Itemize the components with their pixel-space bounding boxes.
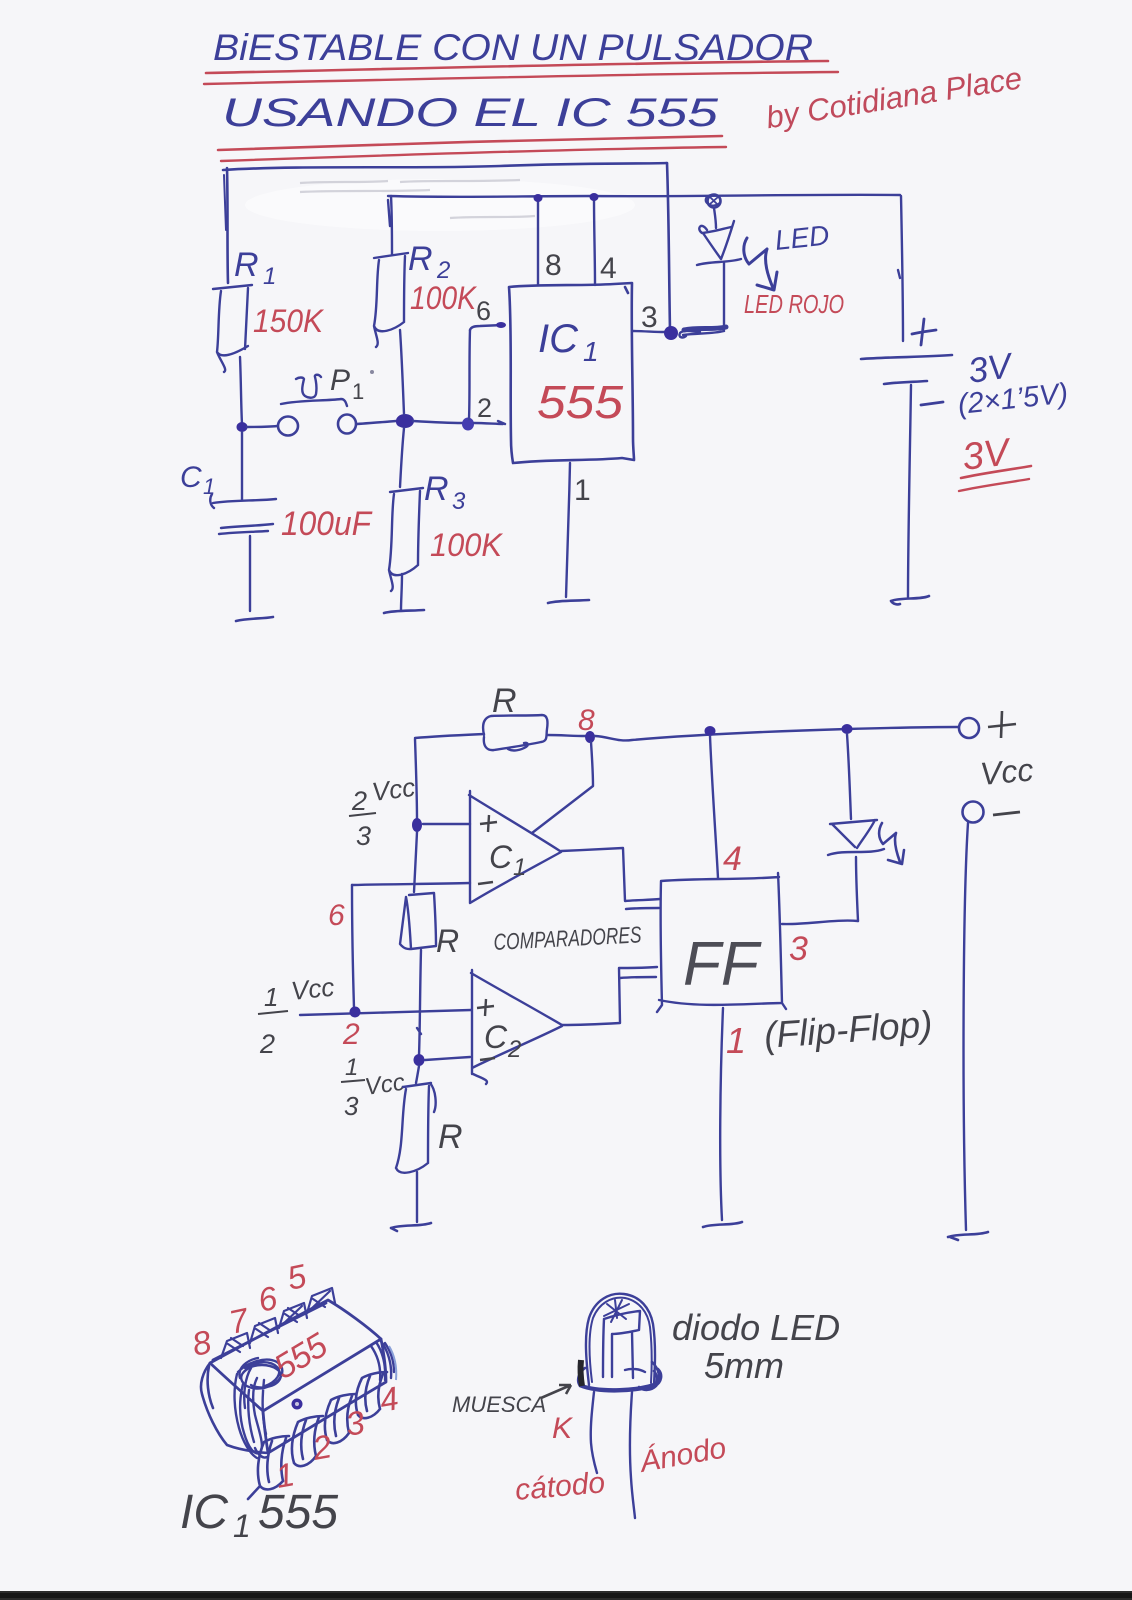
plus sign (C1)	[480, 815, 497, 832]
svg-text:LED: LED	[773, 219, 830, 256]
svg-text:R: R	[408, 240, 433, 278]
svg-text:R: R	[234, 246, 259, 284]
FF box	[657, 873, 786, 1012]
DIP pin 4 (bent tab)	[356, 1372, 387, 1418]
wire: 2/3 node to C1 plus input	[423, 823, 470, 825]
svg-text:C: C	[484, 1019, 508, 1055]
resistor R (middle, small box)	[400, 893, 436, 949]
wire: minus terminal down	[964, 823, 968, 1230]
LED arrow doodle (middle)	[879, 823, 900, 862]
svg-text:4: 4	[600, 252, 617, 285]
wire: 1/3 node to C2 minus	[425, 1057, 470, 1060]
DIP pin 7 (notch)	[250, 1318, 278, 1343]
wire: bottom R to ground	[416, 1172, 418, 1222]
scanner bottom bar	[0, 1591, 1132, 1600]
svg-text:IC: IC	[538, 317, 579, 361]
node 2/3 Vcc dot	[412, 818, 422, 832]
ground (right)	[948, 1232, 988, 1240]
wire: LED stem	[714, 208, 716, 228]
svg-text:Vcc: Vcc	[370, 772, 417, 807]
svg-text:R: R	[436, 923, 459, 959]
svg-text:3: 3	[356, 821, 371, 851]
svg-text:100uF: 100uF	[281, 505, 373, 543]
svg-text:3: 3	[641, 301, 658, 334]
comparator C2 (op-amp triangle)	[471, 970, 562, 1084]
node 1/3 Vcc dot	[414, 1054, 425, 1066]
terminal + (Vcc)	[959, 718, 979, 738]
svg-text:C: C	[489, 839, 513, 875]
node 8 dot	[585, 731, 595, 743]
node (pin2) dot	[350, 1007, 361, 1018]
svg-text:P: P	[330, 364, 350, 397]
wire: heavy scribble node D to LED lead	[684, 327, 726, 330]
wire: pin 6 horizontal into IC	[470, 325, 503, 330]
svg-text:1: 1	[513, 854, 526, 881]
DIP pin 6 (notch)	[279, 1303, 307, 1328]
svg-text:USANDO EL IC 555: USANDO EL IC 555	[222, 91, 719, 135]
DIP pin 5 (notch)	[307, 1288, 335, 1313]
svg-text:100K: 100K	[410, 280, 477, 316]
DIP left end face	[201, 1363, 268, 1453]
ground (R3)	[384, 610, 424, 613]
wire: rail B (R2 top to battery)	[388, 195, 900, 197]
wire: R1 top lead	[227, 168, 228, 283]
resistor R1 body	[213, 285, 252, 372]
svg-text:LED ROJO: LED ROJO	[744, 289, 844, 319]
svg-text:3: 3	[789, 930, 808, 968]
eraser white patch	[245, 179, 635, 231]
wire: R to node 8	[547, 735, 585, 736]
svg-text:1: 1	[726, 1020, 746, 1061]
DIP pin 2 (bent tab)	[292, 1416, 323, 1466]
title underline 1 (red double)	[206, 61, 828, 73]
node A (R1/C1/P1 junction dot)	[237, 422, 248, 432]
capacitor C1 plates	[210, 494, 276, 508]
LED D1 (red led) symbol	[699, 221, 734, 259]
DIP pin 1 (bent tab)	[248, 1436, 289, 1499]
minus sign (C1)	[478, 882, 493, 884]
svg-text:6: 6	[328, 899, 345, 932]
wire: pin 8	[537, 199, 539, 285]
terminal - (gnd)	[963, 802, 984, 823]
svg-text:6: 6	[476, 296, 491, 326]
wire: node B to node C	[413, 421, 462, 423]
label 555 on DIP (red)	[268, 1326, 335, 1387]
title underline 2 (red double)	[218, 136, 722, 150]
wire: 1/3 node down to bottom R	[416, 1066, 419, 1083]
pushbutton P1 actuator	[296, 375, 321, 398]
DIP pin1 heavy scribble	[235, 1358, 283, 1458]
svg-text:R: R	[438, 1118, 463, 1156]
svg-text:Vcc: Vcc	[363, 1069, 406, 1101]
svg-text:K: K	[552, 1412, 574, 1445]
LED inner chip structure	[603, 1311, 645, 1378]
LED (middle diagram) symbol	[830, 820, 877, 848]
plus sign (C2)	[477, 999, 494, 1016]
LED dome hatch	[604, 1300, 629, 1322]
wire: node A to P1 left contact	[247, 426, 277, 427]
ground (FF)	[703, 1222, 742, 1227]
DIP pin 3 (bent tab)	[325, 1394, 356, 1443]
wire: FF output 3 to LED branch	[782, 921, 858, 925]
DIP pin 8 (notch)	[221, 1333, 250, 1358]
wire: 2/3 node down to mid R	[414, 832, 417, 892]
svg-text:1: 1	[574, 474, 591, 507]
svg-text:555: 555	[258, 1486, 338, 1539]
svg-text:C: C	[180, 461, 202, 494]
wire: 6 branch vertical	[352, 885, 354, 1008]
svg-text:Vcc: Vcc	[978, 751, 1034, 792]
IC1 555 box	[509, 283, 634, 463]
wire: FF pin4 up to rail	[710, 736, 718, 878]
svg-text:Vcc: Vcc	[289, 972, 335, 1006]
node B (R2/R3/P1 big blob)	[396, 414, 414, 428]
battery B1	[912, 319, 936, 345]
DIP pin1 dot	[292, 1399, 303, 1410]
svg-text:3: 3	[452, 488, 466, 515]
DIP front face	[263, 1339, 386, 1453]
junction dot (FF pin4 rail)	[705, 726, 716, 736]
wire: P1 right to node B	[357, 421, 396, 424]
minus sign (C2)	[480, 1058, 495, 1060]
node D (pin3 blob)	[664, 326, 678, 340]
wire: battery minus to ground	[908, 385, 911, 597]
svg-text:150K: 150K	[253, 303, 325, 339]
svg-text:2: 2	[342, 1018, 360, 1051]
svg-text:2: 2	[351, 786, 367, 816]
svg-text:8: 8	[578, 704, 595, 737]
wire: 6 branch horizontal into C1 minus	[352, 883, 470, 885]
comparator C1 (op-amp triangle)	[469, 791, 561, 903]
wire: battery drop	[898, 196, 903, 341]
resistor R2 body	[374, 253, 408, 347]
wire: pin 1 to ground	[566, 463, 570, 597]
svg-text:1: 1	[345, 1054, 358, 1081]
svg-text:100K: 100K	[430, 527, 504, 563]
wire: R3 top lead from node B	[400, 428, 404, 487]
svg-text:1: 1	[583, 336, 599, 367]
erased pencil traces	[300, 180, 535, 218]
svg-text:R: R	[492, 682, 517, 720]
wire: LED branch vertical	[856, 857, 858, 921]
wire: node C to IC pin 2	[474, 421, 505, 424]
wire: LED bottom lead	[723, 263, 725, 330]
wire: R2 bottom lead	[400, 330, 404, 414]
wire: LED stem from rail	[847, 734, 851, 819]
svg-text:3: 3	[344, 1091, 359, 1121]
svg-text:2: 2	[259, 1029, 275, 1059]
wire: FF pin1 to ground	[720, 1008, 723, 1220]
svg-text:555: 555	[537, 376, 623, 428]
wire: R2 top lead	[388, 196, 392, 254]
node C (pin2 junction dot)	[462, 418, 474, 431]
svg-text:FF: FF	[683, 930, 762, 999]
junction dot (LED rail)	[842, 724, 853, 734]
wire: R1 bottom lead	[240, 357, 242, 424]
svg-text:5mm: 5mm	[704, 1345, 784, 1386]
svg-text:1: 1	[264, 982, 278, 1012]
wire: rail A right drop to node 3	[667, 163, 670, 330]
resistor R (bottom, flag)	[396, 1083, 436, 1173]
MUESCA arrow	[541, 1385, 571, 1398]
LED arrow doodle	[744, 238, 773, 288]
title line 2	[222, 91, 719, 135]
pushbutton P1 bar	[281, 399, 347, 406]
title line 1	[213, 27, 813, 68]
wire: C1 bottom lead	[249, 536, 251, 611]
svg-text:IC: IC	[180, 1486, 228, 1539]
LED anode lead (long)	[630, 1392, 635, 1518]
svg-text:diodo LED: diodo LED	[672, 1307, 840, 1348]
svg-text:8: 8	[545, 249, 562, 282]
wire: node 8 drop + diagonal to C1	[532, 742, 593, 833]
LED 5mm dome drawing	[586, 1294, 655, 1385]
LED top node (circled plus)	[708, 195, 721, 208]
svg-text:1: 1	[203, 474, 215, 499]
ground (bottom R)	[391, 1223, 431, 1231]
svg-text:4: 4	[723, 840, 742, 878]
wire: pin 4	[594, 198, 595, 285]
svg-text:1: 1	[263, 263, 276, 290]
svg-text:1: 1	[352, 379, 364, 404]
wire: pin 3 to node D	[633, 331, 664, 332]
wire: R3 bottom lead	[401, 574, 402, 610]
wire: 1/2Vcc horizontal to C2 plus	[300, 1010, 471, 1015]
ground (battery)	[891, 596, 929, 604]
byline: by Cotidiana Place (red script)	[764, 60, 1025, 135]
DIP-8 package top face	[210, 1300, 381, 1411]
wire: top rail left segment	[415, 734, 484, 738]
wire: C1 output to FF	[561, 848, 660, 901]
ground (pin1)	[548, 600, 589, 603]
wire: pin 6 vertical	[469, 330, 470, 419]
wire: C1 top lead from node A	[241, 432, 243, 500]
svg-text:MUESCA: MUESCA	[452, 1392, 546, 1417]
resistor R3 body	[389, 488, 423, 591]
LED muesca notch (dark tick)	[581, 1360, 582, 1386]
svg-text:1: 1	[233, 1508, 251, 1544]
svg-text:2: 2	[507, 1036, 521, 1063]
wire: rail A top (R1 top to right corner)	[223, 163, 667, 170]
wire: rail left drop to 2/3Vcc node	[415, 739, 417, 820]
LED flange/rim	[578, 1362, 661, 1391]
pushbutton P1 contacts	[278, 417, 298, 436]
resistor R (top divider, loop style)	[483, 715, 547, 750]
svg-text:R: R	[424, 470, 449, 508]
DIP right-end scribble	[371, 1340, 394, 1380]
wire: top rail right (node8 to + terminal)	[595, 727, 958, 740]
LED cathode lead (short)	[591, 1392, 597, 1473]
ground (C1)	[236, 617, 273, 621]
wire: C2 output to FF	[562, 967, 657, 1025]
wire: mid R down to 1/3 node	[417, 950, 421, 1055]
svg-text:2: 2	[477, 393, 492, 423]
